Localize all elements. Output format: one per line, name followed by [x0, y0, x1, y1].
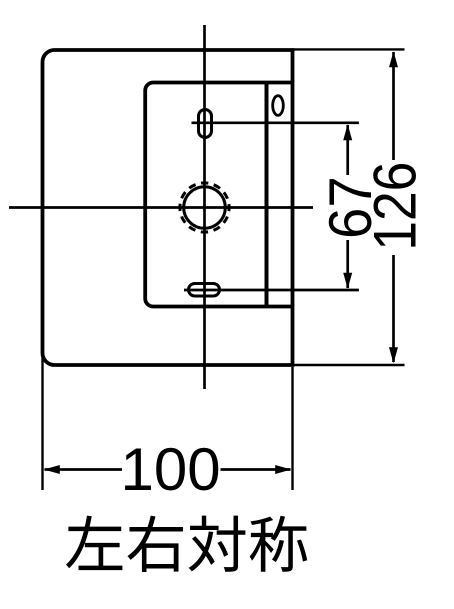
- dimension line 100 right segment: [221, 468, 291, 471]
- extension line bottom right (126): [294, 364, 405, 366]
- arrowhead 100 left: [44, 465, 60, 474]
- slot centerline upper (67 top extension): [192, 121, 359, 124]
- slot centerline lower (67 bottom extension): [184, 289, 359, 292]
- dimension line 126 lower segment: [392, 255, 395, 362]
- horizontal center line: [9, 206, 313, 209]
- svg-text:100: 100: [121, 436, 221, 503]
- center wiring hole (solid circle): [184, 187, 226, 229]
- arrowhead 126 up: [389, 51, 398, 67]
- arrowhead 67 down: [343, 273, 352, 289]
- kanji SHOU of label 左右対称: [250, 516, 308, 572]
- mounting plate outline (rounded left corners, open to right edge): [145, 83, 292, 307]
- side screw hole (small ellipse): [273, 96, 284, 116]
- kanji YUU (right) of label 左右対称: [127, 516, 183, 572]
- arrowhead 126 down: [389, 347, 398, 363]
- kanji SA (left) of label 左右対称: [66, 516, 122, 571]
- plate flange divider line: [265, 83, 269, 307]
- top keyhole slot (vertical stadium): [199, 110, 212, 138]
- bottom mounting slot (horizontal stadium): [189, 284, 220, 297]
- knockout circle (dashed): [180, 183, 229, 232]
- dimension line 100 left segment: [45, 468, 123, 471]
- dimension line 67 lower segment: [346, 240, 349, 288]
- dimension line 126 upper segment: [392, 52, 395, 160]
- arrowhead 67 up: [343, 124, 352, 140]
- arrowhead 100 right: [275, 465, 291, 474]
- fixture body outline (rounded left corners, flat right side): [43, 50, 293, 365]
- dimension line 67 upper segment: [346, 125, 349, 175]
- kanji TAI of label 左右対称: [189, 516, 246, 572]
- svg-text:67: 67: [317, 176, 384, 239]
- extension line bottom right vertical (100): [291, 367, 293, 490]
- extension line top right (126): [294, 48, 405, 50]
- vertical center line: [203, 25, 206, 389]
- extension line bottom left (100): [41, 351, 43, 490]
